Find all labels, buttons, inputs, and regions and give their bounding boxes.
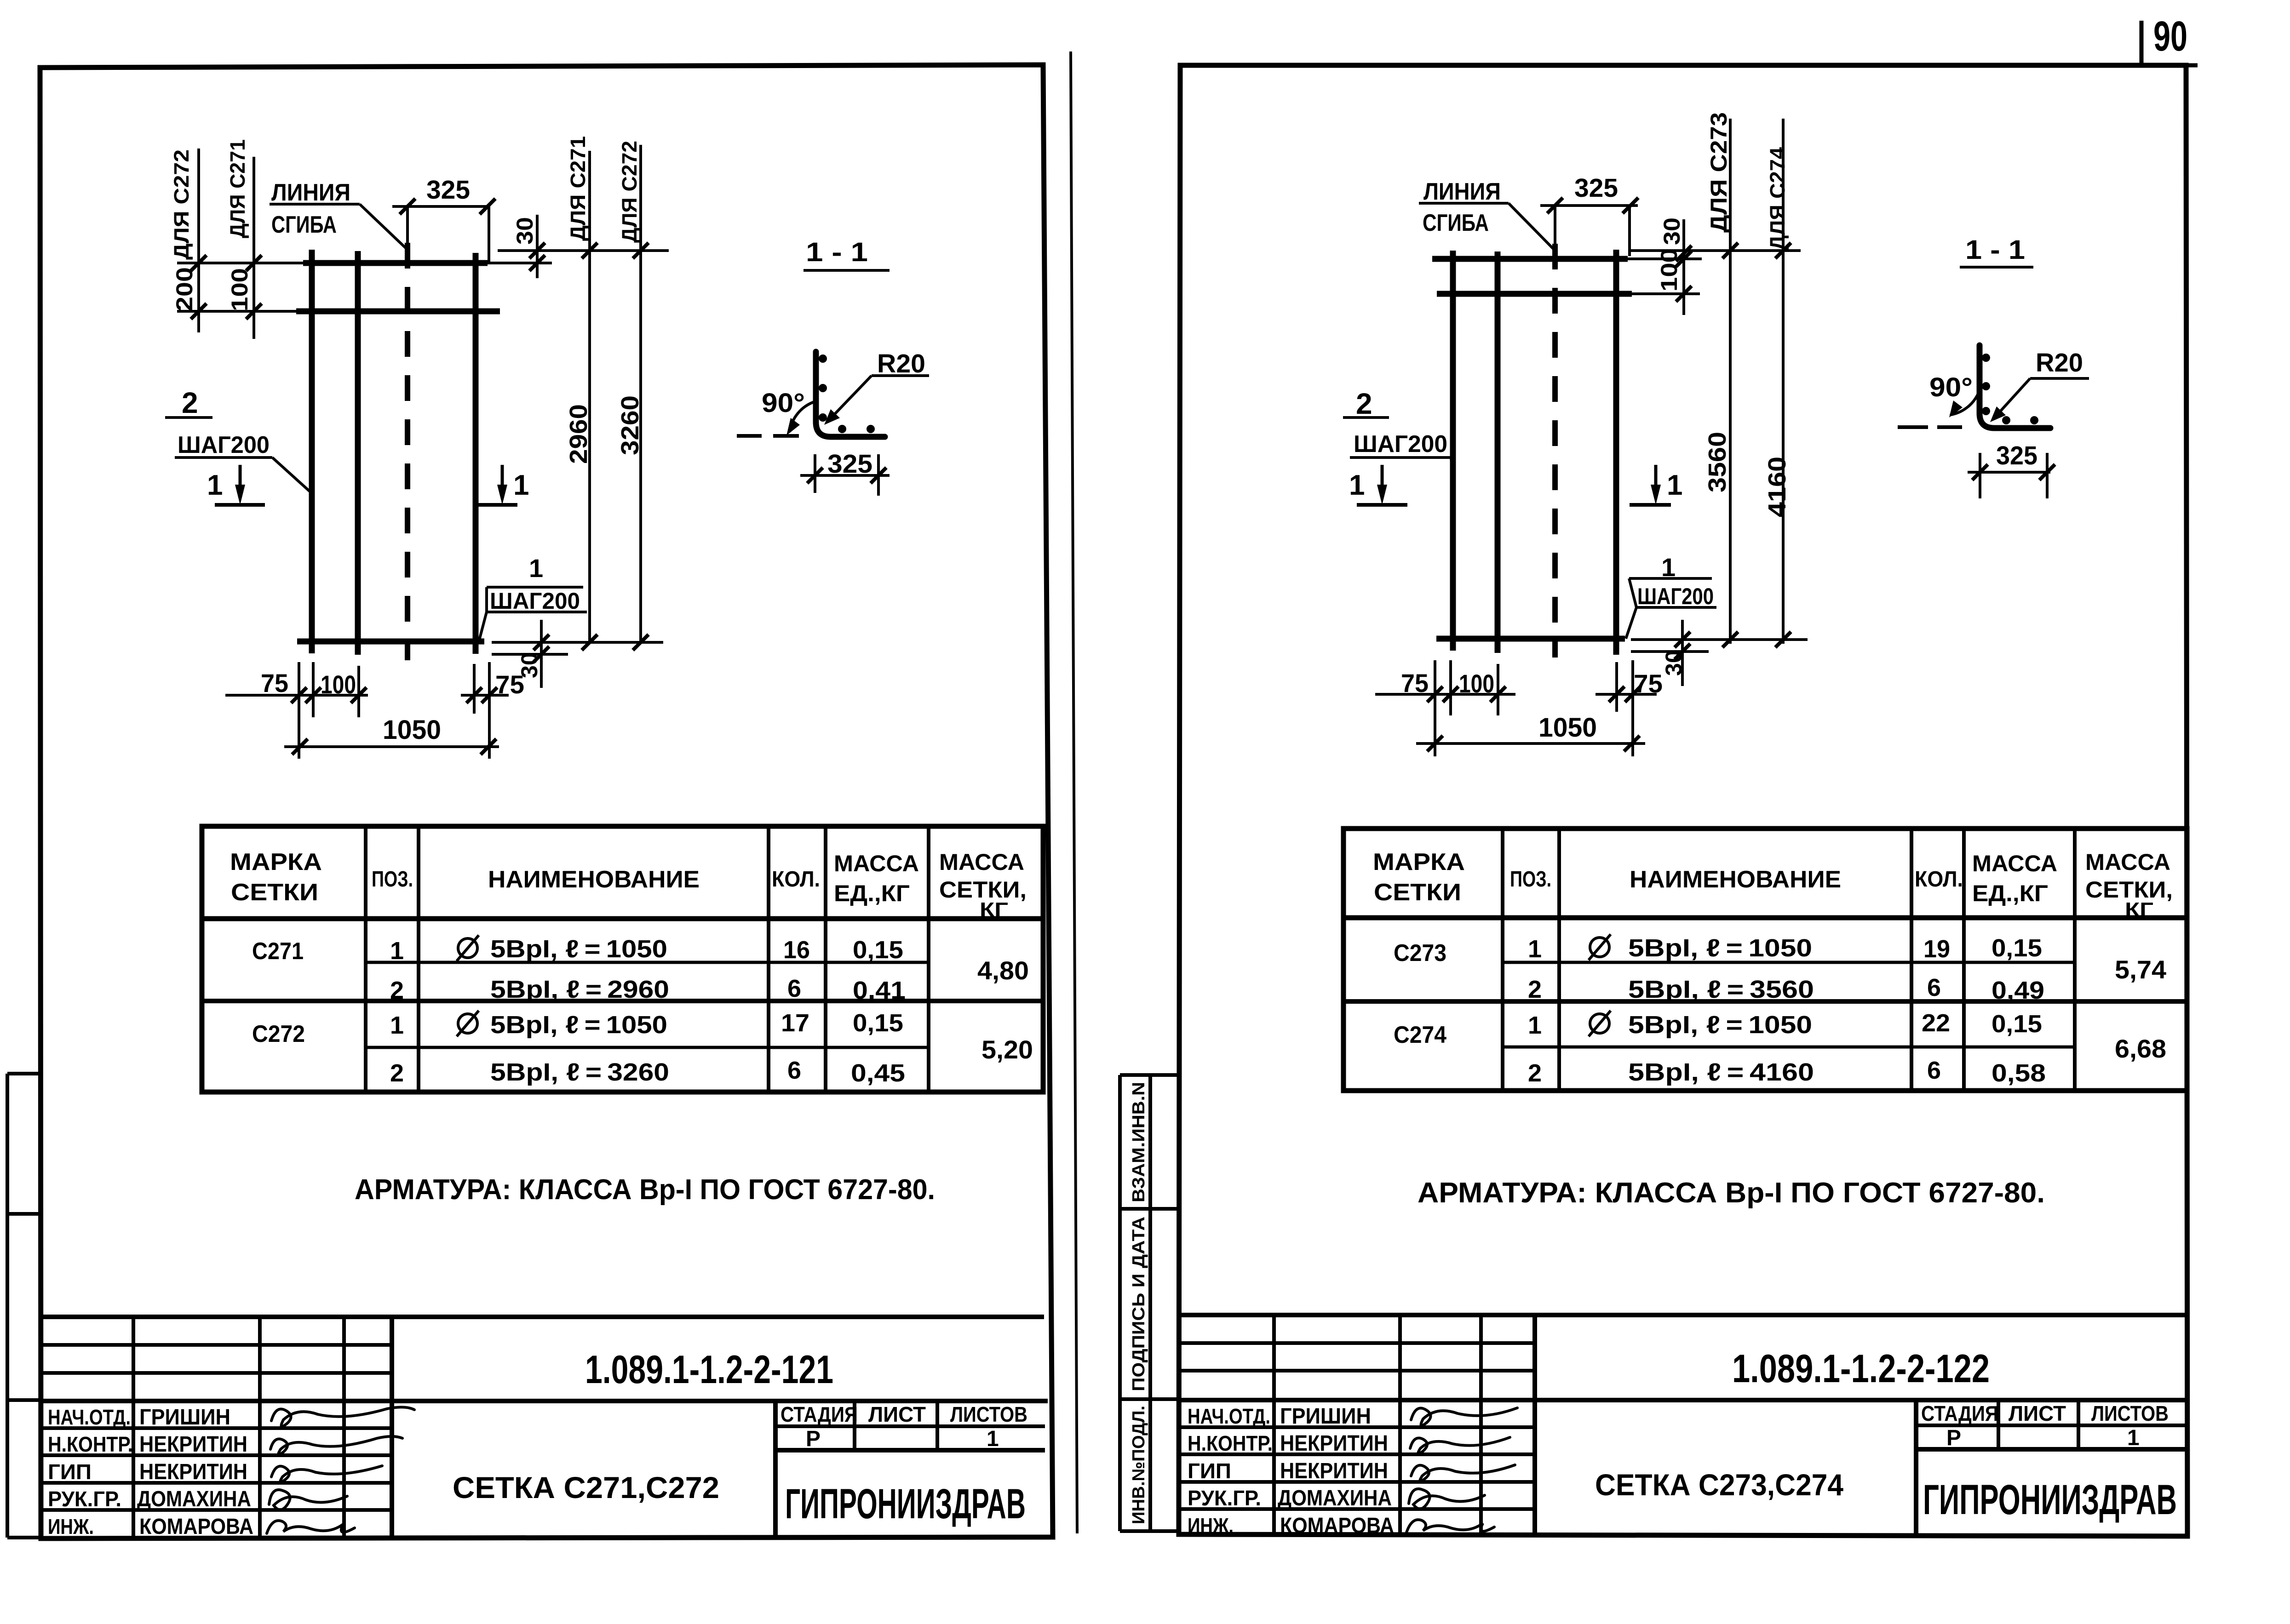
svg-text:325: 325: [426, 175, 470, 205]
svg-text:ЛИСТ: ЛИСТ: [2009, 1401, 2066, 1425]
dimension line for C271 (100): [253, 157, 255, 339]
svg-text:Р: Р: [806, 1427, 821, 1451]
svg-text:0,58: 0,58: [1992, 1059, 2046, 1087]
svg-text:ЛИСТ: ЛИСТ: [868, 1402, 926, 1426]
svg-text:1050: 1050: [1538, 713, 1597, 743]
mesh vertical bar 3 R: [1613, 250, 1619, 655]
bar dots (pos 1 cross sections): [819, 355, 827, 363]
svg-text:1: 1: [513, 469, 529, 501]
svg-text:ГРИШИН: ГРИШИН: [1280, 1404, 1371, 1429]
svg-text:R20: R20: [2036, 348, 2083, 377]
svg-text:КОМАРОВА: КОМАРОВА: [139, 1515, 253, 1539]
svg-text:30: 30: [1661, 650, 1687, 676]
linija sgiba underline: [270, 203, 360, 206]
signatures left: [267, 1407, 414, 1533]
svg-text:3260: 3260: [616, 395, 644, 455]
right margin strip: [1120, 1075, 1180, 1531]
svg-text:СЕТКИ: СЕТКИ: [231, 879, 318, 906]
svg-text:МАССА: МАССА: [939, 849, 1024, 875]
svg-text:ВЗАМ.ИНВ.N: ВЗАМ.ИНВ.N: [1129, 1082, 1148, 1202]
mesh vertical bar 2 (pos 2): [355, 251, 361, 655]
svg-text:30: 30: [1659, 217, 1685, 245]
svg-text:1: 1: [390, 937, 404, 965]
svg-text:НЕКРИТИН: НЕКРИТИН: [1280, 1459, 1388, 1483]
extension line second bar left: [177, 310, 299, 313]
svg-text:5,20: 5,20: [981, 1035, 1033, 1064]
svg-text:1: 1: [2127, 1426, 2140, 1450]
svg-text:5ВрI, ℓ = 2960: 5ВрI, ℓ = 2960: [490, 976, 669, 1003]
table frame left: [202, 826, 1043, 1092]
svg-text:1: 1: [529, 554, 543, 583]
svg-text:ДОМАХИНА: ДОМАХИНА: [137, 1487, 251, 1511]
svg-text:1: 1: [987, 1427, 999, 1451]
right sheet frame: [1179, 65, 2187, 1536]
frame top overshoot: [2186, 63, 2198, 68]
svg-text:ШАГ200: ШАГ200: [1637, 583, 1714, 609]
svg-text:2: 2: [390, 1059, 404, 1087]
mesh plane dashes R: [1898, 425, 1928, 429]
svg-text:РУК.ГР.: РУК.ГР.: [1188, 1486, 1261, 1510]
left sheet frame: [40, 65, 1053, 1538]
svg-text:ДОМАХИНА: ДОМАХИНА: [1278, 1486, 1392, 1510]
section mark 1 right R: [1654, 465, 1658, 497]
svg-text:ГИПРОНИИЗДРАВ: ГИПРОНИИЗДРАВ: [785, 1481, 1026, 1527]
svg-text:100: 100: [227, 268, 253, 311]
big dim line C273 3560: [1729, 119, 1732, 644]
svg-text:5ВрI, ℓ = 1050: 5ВрI, ℓ = 1050: [490, 1011, 667, 1039]
svg-text:РУК.ГР.: РУК.ГР.: [48, 1487, 121, 1511]
svg-text:НЕКРИТИН: НЕКРИТИН: [139, 1432, 247, 1457]
svg-text:КОЛ.: КОЛ.: [1915, 867, 1963, 892]
svg-text:30: 30: [512, 217, 538, 245]
svg-text:ДЛЯ С273: ДЛЯ С273: [1706, 112, 1732, 233]
ext line 325 left (to dashed): [406, 206, 409, 243]
big dim line C271 2960: [588, 151, 591, 644]
svg-text:75: 75: [1401, 669, 1429, 698]
svg-text:5ВрI, ℓ = 4160: 5ВрI, ℓ = 4160: [1628, 1058, 1814, 1086]
svg-text:2: 2: [1356, 387, 1372, 420]
svg-text:90: 90: [2153, 13, 2187, 60]
svg-text:16: 16: [783, 936, 810, 964]
mesh bottom horizontal bar (pos 1): [297, 639, 484, 645]
mesh vertical bar 1 (pos 2): [309, 250, 315, 653]
mesh bottom horizontal bar R: [1436, 636, 1625, 642]
svg-text:МАРКА: МАРКА: [230, 849, 322, 875]
bottom-left dims 75 / 100: [225, 662, 368, 759]
extension line top bar left: [177, 262, 306, 264]
svg-text:1 - 1: 1 - 1: [806, 237, 868, 267]
svg-text:2: 2: [1528, 976, 1542, 1003]
svg-text:ШАГ200: ШАГ200: [1354, 431, 1447, 457]
big dim line C274 4160: [1782, 119, 1785, 644]
svg-text:325: 325: [1996, 441, 2037, 470]
svg-text:1: 1: [207, 469, 223, 501]
svg-text:1.089.1-1.2-2-121: 1.089.1-1.2-2-121: [585, 1348, 833, 1392]
svg-text:С272: С272: [252, 1021, 305, 1047]
signatures right: [1406, 1408, 1517, 1533]
svg-text:ШАГ200: ШАГ200: [490, 588, 580, 614]
svg-text:2: 2: [390, 977, 404, 1004]
bottom-left dims 75/100 R: [1375, 660, 1515, 756]
dim 1050: [284, 745, 499, 748]
svg-text:СТАДИЯ: СТАДИЯ: [781, 1402, 858, 1426]
svg-text:0,15: 0,15: [1992, 934, 2042, 962]
svg-text:100: 100: [1656, 248, 1682, 292]
svg-text:КОЛ.: КОЛ.: [772, 867, 820, 892]
divider line between sheets: [1071, 51, 1077, 1533]
svg-text:КГ: КГ: [980, 898, 1008, 921]
mesh vertical bar 1 R: [1450, 251, 1456, 651]
svg-text:НАИМЕНОВАНИЕ: НАИМЕНОВАНИЕ: [1630, 866, 1841, 893]
svg-text:ЕД.,КГ: ЕД.,КГ: [1972, 881, 2048, 906]
svg-text:СЕТКА С273,С274: СЕТКА С273,С274: [1595, 1468, 1843, 1502]
ext line 325 right: [488, 206, 490, 263]
bottom-right dims 75 / 30: [461, 620, 663, 759]
svg-text:СТАДИЯ: СТАДИЯ: [1921, 1401, 1998, 1425]
svg-text:ПОДПИСЬ И ДАТА: ПОДПИСЬ И ДАТА: [1129, 1217, 1148, 1391]
svg-text:325: 325: [1574, 173, 1618, 203]
svg-text:2: 2: [182, 386, 198, 419]
svg-text:ИНЖ.: ИНЖ.: [1188, 1514, 1234, 1538]
table frame right: [1343, 829, 2187, 1091]
svg-text:1: 1: [1528, 935, 1542, 963]
svg-text:5,74: 5,74: [2115, 955, 2166, 984]
svg-text:АРМАТУРА: КЛАССА Вр-I ПО: АРМАТУРА: КЛАССА Вр-I ПО ГОСТ 6727-80.: [1418, 1177, 2045, 1209]
svg-text:С273: С273: [1394, 940, 1446, 966]
svg-text:СГИБА: СГИБА: [1423, 210, 1489, 236]
dimension line for C272 (200): [197, 149, 200, 332]
svg-text:90°: 90°: [1929, 372, 1973, 402]
svg-text:ИНЖ.: ИНЖ.: [48, 1515, 94, 1538]
svg-text:НАЧ.ОТД.: НАЧ.ОТД.: [1188, 1404, 1270, 1428]
mesh second horizontal bar (pos 1): [296, 309, 500, 315]
svg-text:1: 1: [1528, 1012, 1542, 1039]
page number 90 tick: [2140, 21, 2144, 65]
svg-text:ПОЗ.: ПОЗ.: [372, 867, 413, 892]
svg-text:100: 100: [321, 670, 356, 699]
fold line (dashed): [405, 243, 410, 660]
svg-text:0,15: 0,15: [853, 1009, 903, 1037]
svg-text:НАЧ.ОТД.: НАЧ.ОТД.: [48, 1405, 131, 1429]
svg-text:ДЛЯ С274: ДЛЯ С274: [1766, 147, 1789, 251]
svg-text:ПОЗ.: ПОЗ.: [1510, 867, 1551, 892]
svg-text:МАРКА: МАРКА: [1373, 849, 1465, 875]
svg-text:30: 30: [517, 652, 542, 678]
svg-text:1.089.1-1.2-2-122: 1.089.1-1.2-2-122: [1732, 1347, 1990, 1391]
svg-text:5ВрI, ℓ = 1050: 5ВрI, ℓ = 1050: [490, 935, 667, 963]
svg-text:ГРИШИН: ГРИШИН: [139, 1405, 230, 1430]
svg-text:1: 1: [1349, 469, 1365, 501]
svg-text:НЕКРИТИН: НЕКРИТИН: [139, 1460, 247, 1484]
big dim line C272 3260: [639, 145, 642, 644]
svg-text:Н.КОНТР.: Н.КОНТР.: [1188, 1431, 1273, 1455]
svg-text:6: 6: [1927, 1057, 1941, 1084]
svg-text:0,41: 0,41: [853, 977, 906, 1004]
svg-text:МАССА: МАССА: [2085, 849, 2170, 875]
svg-text:Р: Р: [1946, 1426, 1961, 1450]
mesh vertical bar 3 (pos 2): [473, 253, 479, 654]
svg-text:6: 6: [787, 1057, 801, 1084]
svg-text:ЛИНИЯ: ЛИНИЯ: [271, 179, 350, 206]
svg-text:75: 75: [261, 669, 288, 698]
svg-text:С274: С274: [1394, 1022, 1446, 1048]
svg-text:0,15: 0,15: [1992, 1010, 2042, 1038]
svg-text:2: 2: [1528, 1059, 1542, 1087]
dim 30 (top right): [498, 249, 669, 252]
bottom-right dims 75/30 R: [1596, 620, 1808, 756]
svg-text:5ВрI, ℓ = 1050: 5ВрI, ℓ = 1050: [1628, 934, 1812, 962]
left sheet margin boxes: [7, 1074, 40, 1538]
svg-text:6,68: 6,68: [2115, 1034, 2166, 1063]
svg-text:6: 6: [787, 975, 801, 1002]
dims 30 / 100 (top right R): [1628, 219, 1801, 315]
section mark 1 (right): [501, 465, 504, 497]
svg-text:22: 22: [1922, 1009, 1950, 1037]
svg-text:2960: 2960: [565, 404, 592, 464]
svg-text:ЛИСТОВ: ЛИСТОВ: [2091, 1401, 2169, 1425]
svg-text:100: 100: [1459, 669, 1494, 698]
svg-text:0,45: 0,45: [851, 1059, 905, 1087]
mesh second horizontal bar R: [1437, 291, 1632, 297]
svg-text:НЕКРИТИН: НЕКРИТИН: [1280, 1431, 1388, 1456]
svg-text:ДЛЯ С272: ДЛЯ С272: [170, 149, 193, 260]
svg-text:0,49: 0,49: [1992, 977, 2044, 1004]
svg-text:1: 1: [390, 1012, 404, 1039]
svg-text:5ВрI, ℓ = 3260: 5ВрI, ℓ = 3260: [490, 1058, 669, 1086]
svg-text:МАССА: МАССА: [1972, 851, 2057, 876]
svg-text:1050: 1050: [383, 715, 441, 745]
svg-text:ДЛЯ С272: ДЛЯ С272: [618, 141, 641, 243]
svg-text:ГИПРОНИИЗДРАВ: ГИПРОНИИЗДРАВ: [1923, 1476, 2177, 1523]
svg-text:75: 75: [1634, 669, 1663, 698]
svg-text:ГИП: ГИП: [1188, 1459, 1231, 1483]
svg-text:ЛИНИЯ: ЛИНИЯ: [1423, 178, 1501, 205]
svg-text:СЕТКА С271,С272: СЕТКА С271,С272: [453, 1470, 719, 1504]
svg-text:ИНВ.№ПОДЛ.: ИНВ.№ПОДЛ.: [1129, 1406, 1148, 1524]
svg-text:1 - 1: 1 - 1: [1965, 235, 2025, 265]
svg-text:17: 17: [781, 1009, 809, 1037]
mesh top horizontal bar R: [1432, 256, 1628, 262]
svg-text:0,15: 0,15: [853, 936, 903, 964]
table header separator: [202, 916, 1043, 921]
bent bar section: [816, 352, 885, 437]
svg-text:АРМАТУРА: КЛАССА Вр-I ПО Г: АРМАТУРА: КЛАССА Вр-I ПО ГОСТ 6727-80.: [355, 1174, 935, 1206]
svg-text:Н.КОНТР.: Н.КОНТР.: [48, 1432, 133, 1456]
svg-text:200: 200: [172, 267, 197, 311]
svg-text:ШАГ200: ШАГ200: [178, 432, 270, 458]
svg-text:ДЛЯ С271: ДЛЯ С271: [226, 139, 249, 238]
svg-text:МАССА: МАССА: [834, 851, 919, 876]
svg-text:4160: 4160: [1763, 457, 1791, 517]
svg-text:СЕТКИ: СЕТКИ: [1374, 879, 1461, 906]
svg-text:19: 19: [1923, 935, 1950, 963]
bent bar section R: [1980, 345, 2050, 428]
svg-text:НАИМЕНОВАНИЕ: НАИМЕНОВАНИЕ: [488, 866, 700, 893]
ticks 200/100 dims: [191, 255, 262, 319]
mesh vertical bar 2 R: [1495, 252, 1501, 653]
svg-text:ДЛЯ С271: ДЛЯ С271: [566, 136, 590, 241]
svg-text:6: 6: [1927, 974, 1941, 1001]
linija sgiba leader: [360, 204, 408, 251]
mesh plane dashes: [737, 434, 762, 438]
svg-text:ЛИСТОВ: ЛИСТОВ: [950, 1402, 1027, 1426]
table row lines: [366, 961, 929, 964]
svg-text:3560: 3560: [1704, 432, 1731, 492]
svg-text:ГИП: ГИП: [48, 1460, 92, 1484]
svg-text:5ВрI, ℓ = 3560: 5ВрI, ℓ = 3560: [1628, 976, 1814, 1003]
svg-text:1: 1: [1667, 469, 1682, 501]
svg-text:R20: R20: [877, 349, 925, 378]
mesh top horizontal bar (pos 1): [303, 260, 488, 266]
90deg arc with arrow: [790, 402, 814, 431]
dim 1050 R: [1416, 742, 1645, 745]
svg-text:КОМАРОВА: КОМАРОВА: [1280, 1514, 1394, 1538]
svg-text:КГ: КГ: [2125, 898, 2153, 921]
svg-text:СГИБА: СГИБА: [271, 212, 337, 238]
fold line R (dashed): [1552, 244, 1558, 658]
svg-text:ЕД.,КГ: ЕД.,КГ: [834, 881, 910, 906]
svg-text:5ВрI, ℓ = 1050: 5ВрI, ℓ = 1050: [1628, 1011, 1812, 1039]
svg-text:4,80: 4,80: [977, 956, 1029, 985]
svg-text:С271: С271: [252, 938, 304, 965]
